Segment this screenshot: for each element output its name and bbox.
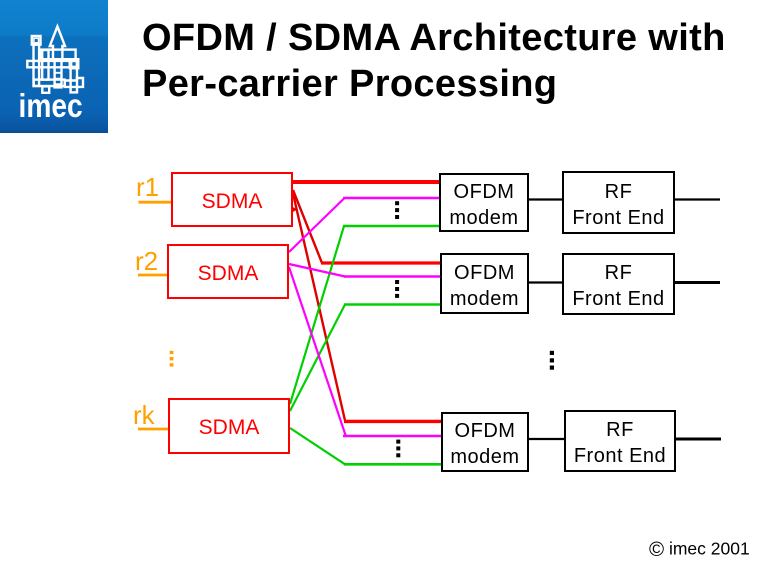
middle orange ellipsis	[170, 351, 174, 367]
lower horizontal bar	[34, 80, 65, 86]
magenta wire SDMA2->OFDM1 diagonal	[289, 199, 344, 253]
RF Front End box 1	[562, 171, 675, 234]
red wire SDMA1->OFDM2 horizontal	[321, 261, 440, 264]
arrow	[50, 26, 65, 60]
RF Front End box 2	[562, 253, 675, 315]
orange lead r2	[138, 274, 167, 277]
green wire SDMA3->OFDM1 horizontal	[343, 225, 439, 228]
green wire SDMA3->OFDM1 diagonal	[290, 226, 344, 404]
under-arrow rectangle	[41, 50, 76, 60]
green wire SDMA3->OFDM3 horizontal	[344, 463, 441, 466]
center ladder bar	[55, 59, 62, 87]
SDMA box 2	[167, 244, 289, 299]
wire OFDM1->RF1	[529, 198, 562, 200]
copyright	[649, 538, 750, 562]
label r1	[136, 172, 159, 203]
wire OFDM2->RF2	[529, 281, 562, 283]
red wire SDMA1->OFDM1	[293, 180, 439, 184]
OFDM modem box 1	[439, 173, 529, 232]
ellipsis dots row3	[396, 440, 400, 458]
small bottom square	[42, 86, 49, 92]
ellipsis dots row2	[395, 280, 399, 298]
OFDM modem box 3	[441, 412, 529, 472]
red arrowhead notch on SDMA1 output	[291, 206, 298, 214]
imec logo blue square	[0, 0, 108, 133]
green wire SDMA3->OFDM2 horizontal	[344, 303, 440, 306]
label r2	[135, 246, 158, 277]
label rk	[133, 400, 155, 431]
wire RF3 output	[676, 438, 721, 441]
second vertical bar	[42, 50, 48, 80]
top-left cap square	[32, 36, 41, 45]
magenta wire SDMA2->OFDM3 horizontal	[343, 435, 441, 438]
orange lead r1	[139, 201, 172, 204]
wire RF2 output	[675, 281, 720, 284]
slide title	[142, 15, 726, 108]
right vertical bar	[71, 68, 77, 92]
red wire SDMA1->OFDM2 diagonal	[293, 190, 322, 263]
magenta wire SDMA2->OFDM1 horizontal	[343, 197, 439, 200]
OFDM modem box 2	[440, 253, 529, 314]
magenta wire SDMA2->OFDM3 diagonal	[289, 267, 346, 436]
wire RF1 output	[675, 198, 720, 200]
wire OFDM3->RF3	[529, 438, 564, 440]
green wire SDMA3->OFDM3 diagonal	[290, 428, 345, 464]
SDMA box 1	[171, 172, 293, 227]
long horizontal bar	[27, 61, 78, 67]
red wire SDMA1->OFDM3 diagonal	[293, 194, 345, 421]
middle black ellipsis	[550, 351, 554, 370]
RF Front End box 3	[564, 410, 676, 472]
imec tree/arrow logo art	[0, 0, 108, 133]
orange lead rk	[138, 428, 168, 431]
magenta wire SDMA2->OFDM2 diagonal	[289, 264, 345, 277]
lower right step	[65, 78, 83, 87]
green wire SDMA3->OFDM2 diagonal	[290, 305, 345, 412]
ellipsis dots row1	[395, 201, 399, 219]
magenta wire SDMA2->OFDM2 horizontal	[344, 275, 440, 278]
SDMA box 3	[168, 398, 290, 454]
left vertical bar	[34, 45, 40, 86]
right cap square	[70, 59, 79, 68]
red wire SDMA1->OFDM3 horizontal	[344, 420, 441, 423]
